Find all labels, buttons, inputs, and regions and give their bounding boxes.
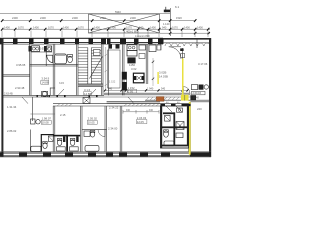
washer X box bbox=[176, 122, 184, 130]
wall x197 short bbox=[196, 38, 198, 48]
sink top bbox=[177, 108, 183, 112]
svg-text:1.31.34: 1.31.34 bbox=[7, 105, 17, 109]
dimension ticks row2 bbox=[1, 28, 209, 31]
wc bbox=[164, 131, 169, 137]
svg-text:940: 940 bbox=[126, 109, 131, 112]
svg-text:2.34.22: 2.34.22 bbox=[109, 105, 119, 109]
svg-text:1070: 1070 bbox=[172, 25, 178, 29]
yellow vertical wall x183 bbox=[182, 59, 184, 96]
svg-text:14.88: 14.88 bbox=[41, 81, 48, 85]
left exterior wall bbox=[1, 38, 3, 157]
door arc bottom center room bbox=[98, 130, 105, 137]
kitchen right icons bbox=[192, 85, 209, 100]
tub bbox=[31, 146, 41, 151]
left rooms divider bbox=[3, 74, 30, 76]
sink circle near label bbox=[42, 91, 48, 96]
small fixtures left bottom room bbox=[31, 119, 41, 124]
svg-text:940: 940 bbox=[139, 25, 144, 29]
svg-text:1070: 1070 bbox=[78, 25, 84, 29]
bath bottom wall y66 bbox=[30, 64, 78, 66]
row3 ticks bbox=[169, 32, 210, 34]
kitchen block center bbox=[127, 44, 161, 86]
room labels bbox=[4, 62, 208, 133]
svg-text:1 400x1 800: 1 400x1 800 bbox=[124, 30, 139, 34]
svg-text:2.86.02: 2.86.02 bbox=[7, 129, 17, 133]
interior walls lower zone bbox=[30, 97, 209, 152]
orange highlighted wall segment bbox=[156, 97, 164, 102]
dimension text row0 bbox=[12, 10, 182, 26]
svg-text:1070: 1070 bbox=[18, 25, 24, 29]
entry hall wall bbox=[30, 113, 54, 115]
svg-text:10.05: 10.05 bbox=[88, 121, 95, 125]
corner shower quarter round bbox=[47, 55, 53, 63]
corridor mid line right bbox=[104, 96, 190, 98]
inner room outline x107-120 bbox=[108, 50, 120, 88]
black block right of yellow bbox=[190, 95, 196, 100]
stair bottom landing bbox=[78, 83, 103, 85]
right exterior wall bbox=[209, 38, 211, 157]
svg-text:4 wonx1 800: 4 wonx1 800 bbox=[135, 34, 150, 38]
two bottom-center bathrooms bbox=[53, 135, 80, 152]
svg-text:3.02: 3.02 bbox=[131, 67, 137, 71]
svg-text:1 940: 1 940 bbox=[147, 88, 154, 91]
door arc right room to kitchen bbox=[183, 87, 189, 93]
svg-text:14.88: 14.88 bbox=[84, 92, 91, 96]
svg-text:6.1: 6.1 bbox=[175, 5, 180, 9]
svg-text:1 152: 1 152 bbox=[109, 81, 116, 84]
apartment divider x53-55 bbox=[52, 44, 54, 95]
top wall inner face bbox=[0, 43, 163, 45]
door jambs on corridor wall bbox=[37, 95, 98, 97]
wall x183 bbox=[182, 48, 184, 95]
svg-text:2400: 2400 bbox=[40, 16, 46, 20]
svg-text:1400: 1400 bbox=[63, 25, 69, 29]
small shaft below stairs bbox=[83, 98, 90, 104]
sink bbox=[176, 133, 183, 138]
svg-text:1400: 1400 bbox=[4, 25, 10, 29]
interior dim line bottom right room bbox=[126, 109, 154, 112]
kitchen right bottom wall bbox=[190, 101, 209, 103]
top exterior wall outer face bbox=[0, 37, 163, 39]
svg-text:540: 540 bbox=[161, 88, 166, 91]
label box bottom left bbox=[41, 117, 51, 125]
axis flag marker bbox=[164, 7, 171, 36]
wall x30 bbox=[29, 44, 31, 95]
stair right wall bbox=[100, 44, 102, 95]
top wall window lines bbox=[4, 42, 159, 44]
corridor boxed label bbox=[127, 86, 137, 94]
crossed box marker bbox=[89, 14, 160, 33]
black blocks top of hall room bbox=[109, 44, 120, 48]
top-right wall with arch windows bbox=[163, 39, 211, 46]
svg-text:2400: 2400 bbox=[72, 16, 78, 20]
shower room wall x46 bbox=[45, 52, 47, 66]
dimension band lines bbox=[0, 14, 210, 34]
washer bbox=[48, 136, 53, 141]
corridor dim line right bbox=[104, 89, 188, 91]
svg-text:1400: 1400 bbox=[33, 25, 39, 29]
doors across corridor bbox=[22, 89, 182, 112]
svg-text:1400: 1400 bbox=[94, 25, 100, 29]
svg-text:1400: 1400 bbox=[150, 25, 156, 29]
svg-text:1.120: 1.120 bbox=[163, 22, 170, 26]
wall x123 bbox=[121, 44, 123, 95]
bottom tub room x84-102 bbox=[84, 130, 99, 151]
fixtures shelf wall y52 bbox=[31, 51, 52, 53]
stair top box bbox=[94, 50, 101, 56]
svg-text:2400: 2400 bbox=[12, 16, 18, 20]
svg-text:10.08: 10.08 bbox=[42, 121, 49, 125]
svg-text:240: 240 bbox=[197, 107, 202, 111]
svg-text:0.95: 0.95 bbox=[128, 89, 134, 93]
wall x108 bbox=[108, 44, 110, 95]
corridor top wall right (higher) bbox=[104, 93, 190, 95]
svg-text:10.40: 10.40 bbox=[193, 97, 200, 100]
label box bottom center bbox=[87, 117, 97, 125]
door arc top right room bbox=[169, 47, 185, 59]
corridor bottom wall bbox=[53, 101, 190, 106]
dimension text row2 bbox=[4, 25, 203, 38]
svg-text:1070: 1070 bbox=[48, 25, 54, 29]
label box left mid bbox=[41, 77, 50, 85]
interior vertical dim line bbox=[105, 47, 107, 90]
corridor extra wall right bbox=[145, 99, 190, 101]
top-left fixtures row bbox=[29, 46, 52, 52]
svg-text:1400: 1400 bbox=[184, 25, 190, 29]
staircase bbox=[78, 46, 103, 86]
label box below stairs bbox=[83, 88, 91, 96]
bathtub bbox=[55, 54, 67, 64]
svg-text:1520: 1520 bbox=[176, 16, 182, 20]
svg-text:2.15: 2.15 bbox=[60, 113, 66, 117]
washer left cell bbox=[165, 116, 171, 122]
yellow vertical wall right bbox=[189, 102, 191, 155]
corridor top wall left bbox=[3, 95, 104, 97]
bath top wall black band with door gaps bbox=[160, 104, 190, 106]
top wall piers bbox=[0, 38, 164, 44]
svg-text:14.03B: 14.03B bbox=[159, 75, 168, 79]
stair newel double line bbox=[87, 48, 89, 84]
svg-text:2400: 2400 bbox=[130, 16, 136, 20]
svg-text:2.60.03: 2.60.03 bbox=[193, 92, 202, 95]
svg-text:3.15: 3.15 bbox=[59, 82, 64, 85]
label box bottom right room bbox=[136, 116, 147, 124]
bathroom right big block bbox=[160, 106, 188, 148]
bottom exterior wall bbox=[0, 151, 211, 153]
svg-text:12.05: 12.05 bbox=[137, 120, 144, 124]
svg-text:940: 940 bbox=[162, 25, 167, 29]
svg-text:2.34.00: 2.34.00 bbox=[108, 127, 118, 131]
svg-text:5940: 5940 bbox=[115, 10, 121, 14]
svg-text:2.63.4B: 2.63.4B bbox=[4, 93, 13, 96]
stair left wall bbox=[75, 44, 77, 95]
wc upper bbox=[68, 54, 73, 62]
stair well white column bbox=[88, 46, 92, 84]
duct shaft B bbox=[133, 73, 144, 83]
duct shaft A bbox=[122, 72, 127, 90]
svg-text:1400: 1400 bbox=[110, 25, 116, 29]
yellow vertical wall x158 bbox=[157, 72, 158, 84]
wc bbox=[43, 143, 47, 149]
yellow highlighted wall segment top bbox=[181, 95, 189, 101]
small wall near label bbox=[49, 88, 51, 96]
svg-text:2400: 2400 bbox=[100, 16, 106, 20]
svg-text:3.17.06: 3.17.06 bbox=[198, 62, 208, 66]
svg-text:2.93.48: 2.93.48 bbox=[15, 86, 25, 90]
tub bbox=[164, 141, 174, 146]
svg-text:1070: 1070 bbox=[126, 25, 132, 29]
svg-text:3.95.65: 3.95.65 bbox=[16, 63, 26, 67]
bottom-left bathroom bbox=[31, 134, 54, 152]
interior walls upper zone bbox=[3, 38, 197, 95]
corridor hatch band bbox=[57, 97, 179, 106]
stair arrow bbox=[90, 57, 103, 79]
svg-text:940: 940 bbox=[149, 109, 154, 112]
wall x147 kitchen right bbox=[145, 44, 147, 84]
witness lines bbox=[2, 31, 208, 37]
dimension ticks row1 bbox=[1, 19, 196, 22]
svg-text:1400: 1400 bbox=[197, 25, 203, 29]
